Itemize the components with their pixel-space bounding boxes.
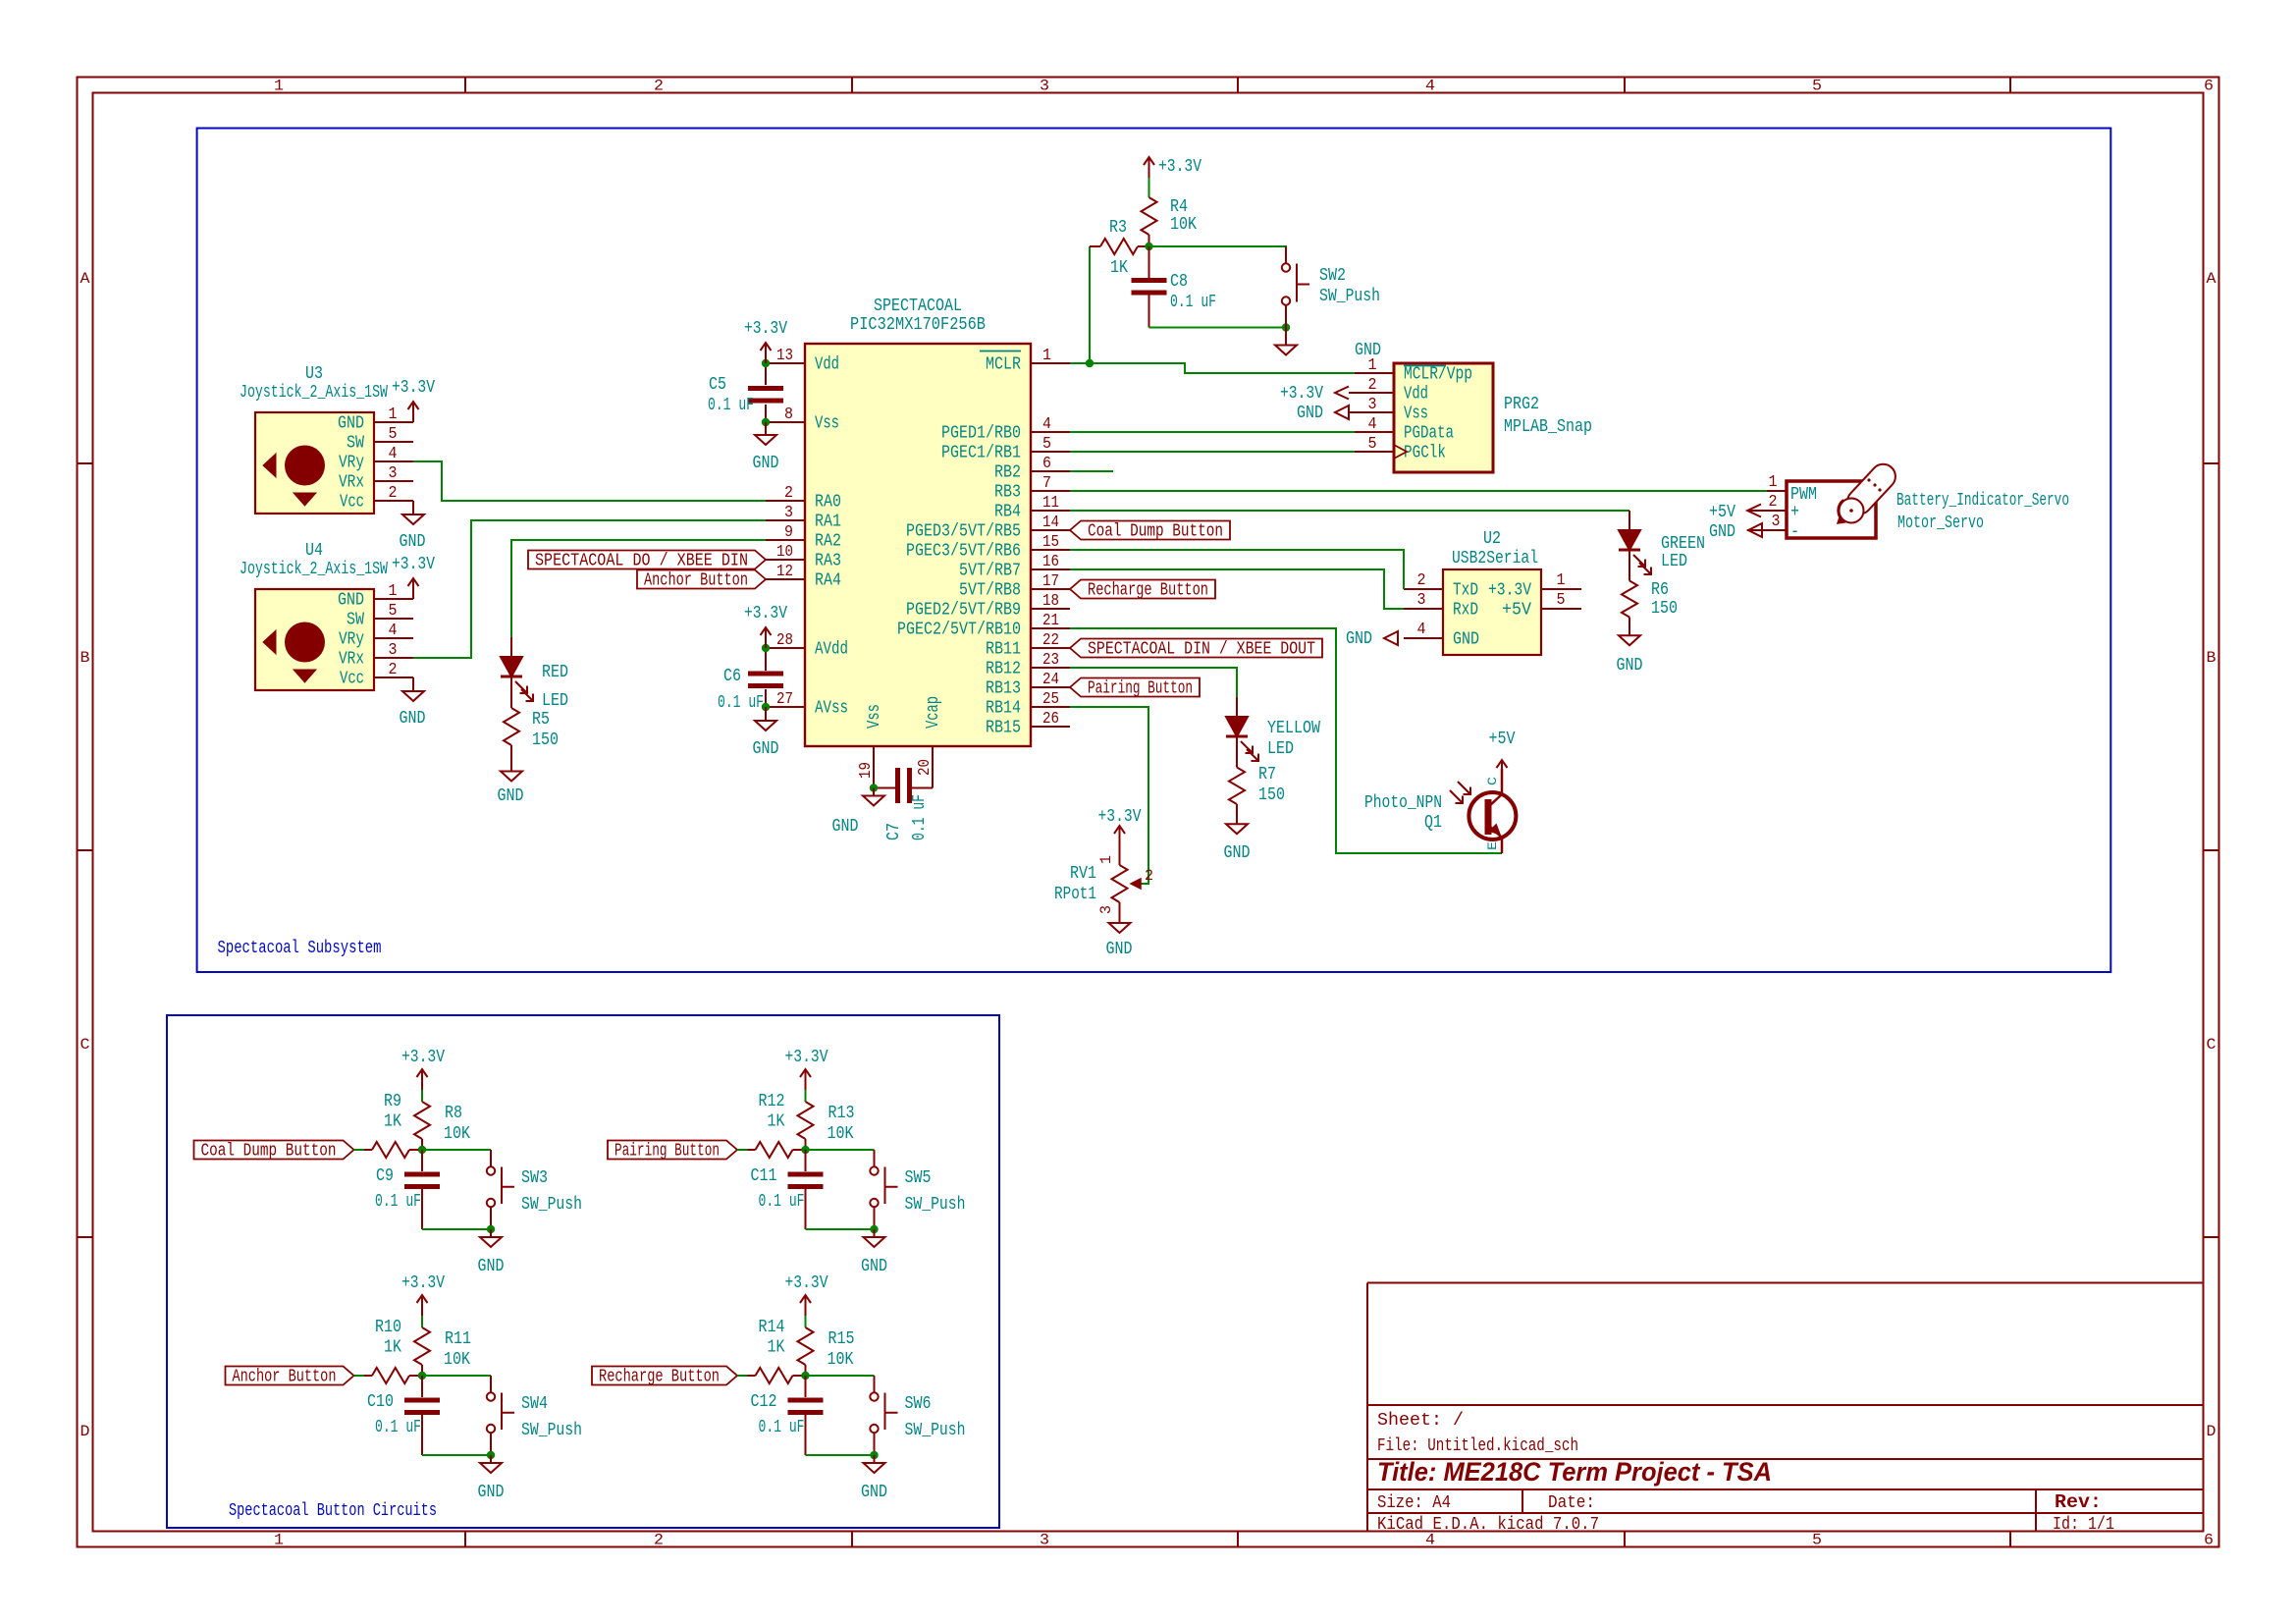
svg-text:1K: 1K <box>768 1112 785 1132</box>
svg-text:12: 12 <box>776 563 793 581</box>
svg-text:5VT/RB8: 5VT/RB8 <box>959 581 1021 601</box>
svg-text:+3.3V: +3.3V <box>1158 157 1201 177</box>
svg-text:5: 5 <box>1368 435 1377 454</box>
svg-text:Recharge Button: Recharge Button <box>599 1368 720 1387</box>
resistor R11 10K <box>414 1316 471 1376</box>
connector PRG2 MPLAB_Snap <box>1355 356 1592 472</box>
svg-text:Anchor Button: Anchor Button <box>233 1368 337 1387</box>
global label SPECTACOAL DIN / XBEE DOUT (RB11) <box>1070 639 1322 660</box>
svg-text:4: 4 <box>1425 78 1435 95</box>
svg-text:3: 3 <box>1040 78 1049 95</box>
global label Anchor Button (block) <box>226 1367 354 1387</box>
svg-text:Anchor Button: Anchor Button <box>644 571 748 591</box>
svg-text:3: 3 <box>389 641 398 660</box>
wire C12 to SW6 bottom <box>806 1454 875 1456</box>
svg-text:R4: R4 <box>1170 197 1188 217</box>
svg-text:GND: GND <box>478 1483 505 1502</box>
svg-text:3: 3 <box>1772 513 1781 531</box>
svg-text:Size: A4: Size: A4 <box>1377 1493 1451 1513</box>
svg-text:Vcc: Vcc <box>340 670 364 689</box>
svg-text:3: 3 <box>1040 1532 1049 1549</box>
svg-text:AVss: AVss <box>815 699 848 719</box>
svg-text:+3.3V: +3.3V <box>401 1273 445 1293</box>
ground (SW6) <box>861 1455 887 1502</box>
svg-text:LED: LED <box>1661 552 1687 571</box>
global label Anchor Button (RA4) <box>637 570 766 591</box>
svg-text:MCLR/Vpp: MCLR/Vpp <box>1404 365 1472 385</box>
svg-text:GND: GND <box>1617 656 1643 676</box>
wire R9 junction to SW3 <box>422 1149 491 1151</box>
svg-text:C: C <box>2207 1036 2216 1054</box>
wire RB2 stub <box>1070 470 1113 472</box>
junction R3/R4/C8 node <box>1145 243 1152 250</box>
svg-text:19: 19 <box>857 762 876 779</box>
svg-text:1: 1 <box>1042 347 1051 365</box>
junction MCLR node <box>1086 359 1094 367</box>
capacitor C11 0.1uF <box>751 1150 824 1229</box>
svg-text:6: 6 <box>1042 455 1051 473</box>
ground (Vss pin8) <box>753 422 779 473</box>
svg-text:2: 2 <box>1145 867 1153 885</box>
svg-text:GND: GND <box>1346 629 1372 649</box>
svg-text:GND: GND <box>1106 940 1133 959</box>
svg-text:1: 1 <box>1769 473 1778 492</box>
svg-text:RV1: RV1 <box>1070 864 1096 884</box>
resistor R5 150 <box>504 677 559 772</box>
svg-text:C8: C8 <box>1170 272 1188 292</box>
svg-text:RA3: RA3 <box>815 552 841 571</box>
svg-text:GND: GND <box>832 817 859 837</box>
svg-text:1: 1 <box>274 78 284 95</box>
resistor R6 150 <box>1622 550 1678 635</box>
wire R4 junction to SW2 <box>1149 246 1287 263</box>
power +3.3V (AVdd) <box>744 604 787 648</box>
svg-text:5: 5 <box>1042 435 1051 454</box>
svg-text:RB14: RB14 <box>986 699 1021 719</box>
svg-text:26: 26 <box>1042 710 1059 729</box>
svg-text:Sheet: /: Sheet: / <box>1377 1411 1464 1431</box>
svg-text:U3: U3 <box>305 364 323 384</box>
svg-text:PGEC1/RB1: PGEC1/RB1 <box>941 444 1021 463</box>
switch SW3 SW_Push <box>487 1150 582 1229</box>
svg-text:RB2: RB2 <box>994 463 1021 483</box>
ground (SW5) <box>861 1229 887 1276</box>
svg-text:PGED3/5VT/RB5: PGED3/5VT/RB5 <box>906 522 1021 542</box>
wire C10 to SW4 bottom <box>422 1454 491 1456</box>
svg-text:27: 27 <box>776 690 793 709</box>
svg-text:1: 1 <box>1097 855 1115 864</box>
svg-text:GND: GND <box>338 591 364 611</box>
svg-text:A: A <box>2207 270 2216 288</box>
joystick U4 <box>240 541 413 690</box>
svg-text:B: B <box>80 649 90 667</box>
svg-text:+5V: +5V <box>1489 730 1516 749</box>
svg-text:9: 9 <box>784 523 793 542</box>
power +3.3V (R13) <box>785 1048 828 1090</box>
svg-text:E: E <box>1485 841 1500 850</box>
svg-text:R13: R13 <box>828 1104 855 1123</box>
svg-text:3: 3 <box>784 504 793 522</box>
resistor R10 1K <box>364 1318 422 1383</box>
svg-text:1K: 1K <box>384 1338 401 1358</box>
svg-text:PGClk: PGClk <box>1404 444 1446 463</box>
svg-text:Pairing Button: Pairing Button <box>614 1142 720 1162</box>
power +5V (servo pin2) <box>1709 503 1761 522</box>
svg-text:8: 8 <box>784 406 793 424</box>
resistor R7 150 <box>1229 736 1285 824</box>
svg-text:RB3: RB3 <box>994 483 1021 503</box>
svg-text:GND: GND <box>478 1257 505 1276</box>
svg-text:6: 6 <box>2204 78 2214 95</box>
ground (R5) <box>498 772 524 807</box>
ground (servo pin3) <box>1709 522 1762 542</box>
resistor R8 10K <box>414 1090 470 1150</box>
wire R12 junction to SW5 <box>806 1149 875 1151</box>
svg-text:PGEC3/5VT/RB6: PGEC3/5VT/RB6 <box>906 542 1021 562</box>
svg-text:150: 150 <box>532 731 559 750</box>
capacitor C7 0.1uF <box>874 768 933 840</box>
svg-text:Recharge Button: Recharge Button <box>1088 581 1208 601</box>
svg-text:Joystick_2_Axis_1SW: Joystick_2_Axis_1SW <box>240 560 388 579</box>
svg-text:+: + <box>1790 503 1799 522</box>
junction R10 node <box>418 1372 426 1380</box>
svg-text:1K: 1K <box>768 1338 785 1358</box>
ground (C7 / Vss pin19) <box>832 788 885 838</box>
junction R9 node <box>418 1146 426 1154</box>
svg-text:5: 5 <box>1812 78 1822 95</box>
svg-text:11: 11 <box>1042 494 1059 513</box>
svg-text:Photo_NPN: Photo_NPN <box>1364 793 1442 813</box>
capacitor C9 0.1uF <box>375 1150 440 1229</box>
svg-text:+3.3V: +3.3V <box>392 378 435 398</box>
svg-text:R11: R11 <box>445 1329 471 1349</box>
svg-text:PIC32MX170F256B: PIC32MX170F256B <box>850 315 986 335</box>
resistor R14 1K <box>748 1318 806 1383</box>
joystick U3 <box>240 364 413 514</box>
svg-text:PGEC2/5VT/RB10: PGEC2/5VT/RB10 <box>897 621 1021 640</box>
svg-text:20: 20 <box>916 759 934 776</box>
svg-text:R12: R12 <box>759 1092 785 1111</box>
svg-text:PGED2/5VT/RB9: PGED2/5VT/RB9 <box>906 601 1021 621</box>
svg-text:SW_Push: SW_Push <box>521 1421 582 1440</box>
ground (U2 pin4) <box>1346 629 1398 649</box>
svg-text:14: 14 <box>1042 514 1059 532</box>
svg-text:+5V: +5V <box>1502 601 1531 621</box>
svg-text:4: 4 <box>389 445 398 463</box>
svg-text:Spectacoal Button Circuits: Spectacoal Button Circuits <box>229 1501 437 1521</box>
svg-text:0.1 uF: 0.1 uF <box>718 693 764 713</box>
svg-text:R3: R3 <box>1109 218 1127 238</box>
svg-text:LED: LED <box>542 691 568 711</box>
svg-text:SW: SW <box>347 434 364 454</box>
svg-text:10K: 10K <box>1170 215 1197 235</box>
svg-text:SW_Push: SW_Push <box>521 1195 582 1215</box>
wire Vdd rail <box>765 367 767 418</box>
wire U4 VRx to RA1 <box>413 520 766 658</box>
svg-text:1: 1 <box>389 406 398 424</box>
svg-text:SW_Push: SW_Push <box>1319 287 1380 306</box>
wire RB4 to GREEN LED <box>1070 510 1629 512</box>
svg-text:23: 23 <box>1042 651 1059 670</box>
svg-text:17: 17 <box>1042 572 1059 591</box>
svg-text:AVdd: AVdd <box>815 640 848 660</box>
svg-text:GND: GND <box>1297 404 1323 423</box>
svg-text:Q1: Q1 <box>1424 813 1442 833</box>
svg-text:3: 3 <box>1097 905 1115 914</box>
svg-text:C9: C9 <box>376 1166 394 1186</box>
svg-text:1: 1 <box>1368 356 1377 375</box>
svg-text:PGED1/RB0: PGED1/RB0 <box>941 424 1021 444</box>
junction AVdd pin28 <box>762 644 770 652</box>
svg-text:TxD: TxD <box>1453 581 1478 601</box>
svg-text:RPot1: RPot1 <box>1054 885 1096 904</box>
wire RB6 to U2 TxD <box>1070 550 1404 589</box>
resistor R15 10K <box>798 1316 855 1376</box>
ground (PRG2 Vss) <box>1297 404 1394 423</box>
svg-text:PRG2: PRG2 <box>1504 395 1539 414</box>
wire Recharge Button label to R14 <box>737 1375 748 1377</box>
svg-text:0.1 uF: 0.1 uF <box>910 794 930 840</box>
svg-text:PWM: PWM <box>1790 485 1817 505</box>
svg-text:+3.3V: +3.3V <box>392 555 435 574</box>
svg-text:2: 2 <box>654 1532 664 1549</box>
junction AVss pin27 <box>762 703 770 711</box>
ground (AVss pin27) <box>753 707 779 759</box>
svg-text:2: 2 <box>1417 571 1426 590</box>
svg-text:GND: GND <box>861 1483 887 1502</box>
wire RB3 to servo PWM <box>1070 490 1767 492</box>
svg-text:RA4: RA4 <box>815 571 841 591</box>
svg-text:5: 5 <box>389 425 398 444</box>
junction SW2/C8/GND node <box>1282 323 1290 331</box>
junction SW3/GND node <box>487 1225 495 1233</box>
svg-text:Vss: Vss <box>815 414 839 434</box>
wire PGClk RB1 <box>1070 451 1355 453</box>
wire C8 to SW2 bottom <box>1149 327 1287 329</box>
svg-text:RA0: RA0 <box>815 493 841 513</box>
power +3.3V (U3 pin1) <box>392 378 435 422</box>
ground (R6) <box>1617 635 1643 676</box>
svg-text:SPECTACOAL: SPECTACOAL <box>874 297 962 316</box>
svg-text:SPECTACOAL DIN / XBEE DOUT: SPECTACOAL DIN / XBEE DOUT <box>1088 640 1315 660</box>
svg-text:18: 18 <box>1042 592 1059 611</box>
svg-text:U4: U4 <box>305 541 323 561</box>
svg-text:D: D <box>2207 1423 2216 1440</box>
svg-text:GND: GND <box>1453 630 1479 650</box>
svg-text:SW_Push: SW_Push <box>905 1421 966 1440</box>
svg-text:C12: C12 <box>751 1392 777 1412</box>
power +3.3V (R11) <box>401 1273 445 1316</box>
junction SW6/GND node <box>870 1451 878 1459</box>
svg-text:RA2: RA2 <box>815 532 841 552</box>
svg-text:Id: 1/1: Id: 1/1 <box>2053 1515 2114 1535</box>
global label SPECTACOAL DO / XBEE DIN (RA3) <box>528 551 766 571</box>
svg-text:0.1 uF: 0.1 uF <box>759 1192 805 1212</box>
svg-text:Rev:: Rev: <box>2055 1491 2102 1513</box>
wire RB7 to U2 RxD <box>1070 569 1404 609</box>
svg-text:5: 5 <box>1557 591 1566 610</box>
svg-text:2: 2 <box>784 484 793 503</box>
svg-text:4: 4 <box>1417 621 1426 639</box>
power +3.3V (PRG2 Vdd) <box>1280 384 1394 404</box>
svg-text:Vcc: Vcc <box>340 493 364 513</box>
junction R14 node <box>801 1372 809 1380</box>
LED YELLOW <box>1226 697 1320 761</box>
svg-text:PGData: PGData <box>1404 424 1454 444</box>
global label Recharge Button (block) <box>592 1367 737 1387</box>
svg-text:0.1 uF: 0.1 uF <box>708 396 754 415</box>
svg-text:+3.3V: +3.3V <box>785 1273 828 1293</box>
IC U2 USB2Serial <box>1404 529 1581 655</box>
resistor R4 10K <box>1142 197 1198 246</box>
svg-text:VRy: VRy <box>339 454 364 473</box>
svg-text:MPLAB_Snap: MPLAB_Snap <box>1504 417 1592 437</box>
global label Coal Dump Button (RB5) <box>1070 521 1230 542</box>
svg-text:2: 2 <box>654 78 664 95</box>
svg-text:-: - <box>1790 522 1799 542</box>
resistor R12 1K <box>748 1092 806 1158</box>
svg-text:13: 13 <box>776 347 793 365</box>
svg-text:R7: R7 <box>1258 765 1276 785</box>
svg-text:R5: R5 <box>532 710 550 730</box>
capacitor C10 0.1uF <box>367 1376 440 1455</box>
svg-text:YELLOW: YELLOW <box>1267 719 1320 738</box>
svg-text:10K: 10K <box>444 1124 470 1144</box>
svg-text:R14: R14 <box>759 1318 785 1337</box>
svg-text:Battery_Indicator_Servo: Battery_Indicator_Servo <box>1896 491 2069 511</box>
svg-text:22: 22 <box>1042 631 1059 650</box>
svg-text:Vcap: Vcap <box>924 696 943 729</box>
svg-text:6: 6 <box>2204 1532 2214 1549</box>
switch SW4 SW_Push <box>487 1376 582 1455</box>
capacitor C12 0.1uF <box>751 1376 824 1455</box>
switch SW2 SW_Push <box>1282 246 1380 328</box>
svg-text:2: 2 <box>389 484 398 503</box>
svg-text:+3.3V: +3.3V <box>401 1048 445 1067</box>
svg-text:21: 21 <box>1042 612 1059 630</box>
svg-text:GND: GND <box>400 709 426 729</box>
svg-text:Vss: Vss <box>1404 405 1428 424</box>
wire R10 junction to SW4 <box>422 1375 491 1377</box>
wire Coal Dump Button label to R9 <box>354 1149 365 1151</box>
junction Vdd pin13 <box>762 359 770 367</box>
svg-text:28: 28 <box>776 631 793 650</box>
capacitor C6 0.1uF <box>718 667 783 713</box>
svg-text:4: 4 <box>389 622 398 640</box>
svg-text:GND: GND <box>1709 522 1735 542</box>
svg-text:Pairing Button: Pairing Button <box>1088 679 1193 699</box>
svg-text:C10: C10 <box>367 1392 394 1412</box>
junction R12 node <box>801 1146 809 1154</box>
svg-text:4: 4 <box>1042 415 1051 434</box>
junction Vss pin8 <box>762 418 770 426</box>
svg-text:1K: 1K <box>384 1112 401 1132</box>
ground (R7) <box>1224 824 1251 863</box>
svg-text:C: C <box>1485 777 1500 785</box>
svg-text:MCLR: MCLR <box>986 355 1021 375</box>
svg-text:RA1: RA1 <box>815 513 841 532</box>
wire Pairing Button label to R12 <box>737 1149 748 1151</box>
svg-text:0.1 uF: 0.1 uF <box>1170 293 1216 312</box>
svg-text:C11: C11 <box>751 1166 777 1186</box>
resistor R9 1K <box>364 1092 422 1158</box>
svg-text:GND: GND <box>498 786 524 806</box>
power +5V (Q1 collector) <box>1489 730 1516 781</box>
svg-text:R6: R6 <box>1651 580 1669 600</box>
svg-text:A: A <box>80 270 90 288</box>
ground (SW3) <box>478 1229 505 1276</box>
svg-text:Date:: Date: <box>1548 1493 1595 1513</box>
svg-text:R10: R10 <box>375 1318 401 1337</box>
svg-text:SW5: SW5 <box>905 1168 932 1188</box>
svg-text:GND: GND <box>753 454 779 473</box>
svg-text:3: 3 <box>1417 591 1426 610</box>
svg-text:R15: R15 <box>828 1329 855 1349</box>
ground (U3 pin2 Vcc) <box>400 501 426 552</box>
resistor R13 10K <box>798 1090 855 1150</box>
svg-text:B: B <box>2207 649 2216 667</box>
svg-text:C5: C5 <box>709 375 726 395</box>
svg-text:U2: U2 <box>1483 529 1501 549</box>
svg-text:USB2Serial: USB2Serial <box>1452 549 1538 568</box>
svg-text:Motor_Servo: Motor_Servo <box>1897 514 1984 533</box>
svg-text:VRy: VRy <box>339 630 364 650</box>
svg-text:SW6: SW6 <box>905 1394 932 1414</box>
svg-text:Spectacoal Subsystem: Spectacoal Subsystem <box>218 939 382 958</box>
svg-text:1: 1 <box>389 582 398 601</box>
svg-text:10K: 10K <box>828 1124 854 1144</box>
power +3.3V (RV1 pin1) <box>1098 807 1142 846</box>
svg-text:Joystick_2_Axis_1SW: Joystick_2_Axis_1SW <box>240 383 388 403</box>
svg-text:+3.3V: +3.3V <box>744 604 787 623</box>
svg-text:+3.3V: +3.3V <box>744 319 787 339</box>
svg-text:0.1 uF: 0.1 uF <box>375 1192 421 1212</box>
power +3.3V (R15) <box>785 1273 828 1316</box>
LED RED <box>501 637 568 711</box>
wire PGData RB0 <box>1070 431 1355 433</box>
svg-text:GND: GND <box>753 739 779 759</box>
svg-text:Coal Dump Button: Coal Dump Button <box>201 1142 337 1162</box>
power +3.3V (Vdd) <box>744 319 787 363</box>
svg-text:150: 150 <box>1258 785 1285 805</box>
capacitor C5 0.1uF <box>708 375 783 415</box>
svg-text:SW3: SW3 <box>521 1168 548 1188</box>
junction Vss pin19 <box>870 784 878 791</box>
switch SW6 SW_Push <box>870 1376 965 1455</box>
wire AVdd rail <box>765 652 767 703</box>
svg-text:0.1 uF: 0.1 uF <box>759 1418 805 1437</box>
wire RB10 to Q1 emitter <box>1070 628 1502 853</box>
svg-text:RB4: RB4 <box>994 503 1021 522</box>
svg-text:1: 1 <box>1557 571 1566 590</box>
power +3.3V (R4) <box>1144 157 1201 197</box>
svg-text:GND: GND <box>1224 843 1251 863</box>
svg-text:1: 1 <box>274 1532 284 1549</box>
wire RB14 to RV1 wiper <box>1070 707 1148 884</box>
svg-text:+5V: +5V <box>1709 503 1735 522</box>
svg-text:GND: GND <box>338 414 364 434</box>
wire Anchor Button label to R10 <box>354 1375 365 1377</box>
svg-text:C6: C6 <box>723 667 741 686</box>
LED GREEN <box>1619 511 1705 574</box>
servo Battery_Indicator_Servo Motor_Servo <box>1747 460 2069 542</box>
svg-text:+3.3V: +3.3V <box>1488 581 1531 601</box>
svg-text:VRx: VRx <box>339 650 364 670</box>
power +3.3V (U4 pin1) <box>392 555 435 599</box>
svg-text:Coal Dump Button: Coal Dump Button <box>1088 522 1223 542</box>
switch SW5 SW_Push <box>870 1150 965 1229</box>
svg-text:4: 4 <box>1368 415 1377 434</box>
